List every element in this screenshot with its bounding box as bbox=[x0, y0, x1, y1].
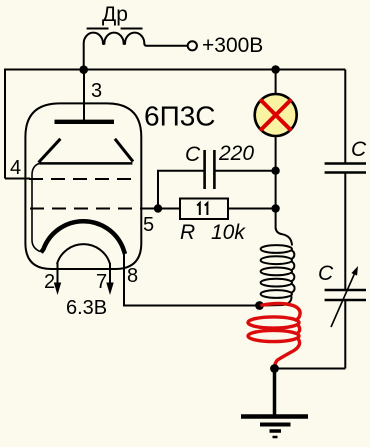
wire coil top lead bbox=[275, 209, 277, 229]
grid g2 dashed bbox=[29, 178, 135, 180]
node junction dot coil tap bbox=[255, 301, 264, 310]
wire C1 right lead bbox=[214, 170, 275, 172]
ground bbox=[241, 417, 308, 438]
svg-text:+300В: +300В bbox=[202, 34, 263, 57]
wire top bus from left corner to right corner bbox=[5, 70, 345, 179]
svg-text:6.3В: 6.3В bbox=[66, 297, 107, 319]
beam plate to cathode internal connection bbox=[32, 163, 40, 251]
svg-text:220: 220 bbox=[218, 142, 254, 165]
svg-text:С: С bbox=[185, 143, 201, 166]
wire pin 8 cathode lead bbox=[124, 250, 260, 306]
variable capacitor arrow bbox=[331, 266, 358, 327]
heater filament bbox=[57, 244, 110, 264]
svg-text:R: R bbox=[180, 221, 195, 244]
svg-text:4: 4 bbox=[10, 157, 21, 179]
wire R right lead bbox=[228, 208, 276, 210]
grid g1 dashed bbox=[30, 208, 141, 210]
node junction dot lamp/C1 bbox=[271, 167, 279, 175]
svg-text:5: 5 bbox=[143, 214, 154, 236]
svg-text:С: С bbox=[351, 138, 367, 161]
node junction dot pin5 bbox=[154, 204, 162, 212]
wire between caps bbox=[344, 173, 346, 290]
svg-text:2: 2 bbox=[44, 271, 55, 293]
svg-text:Др: Др bbox=[102, 3, 128, 26]
svg-text:7: 7 bbox=[96, 271, 107, 293]
wire pin 5 grid lead bbox=[141, 208, 180, 210]
wire ground lead bbox=[273, 369, 277, 417]
capacitor C1 220 plates bbox=[205, 150, 215, 189]
svg-text:10k: 10k bbox=[211, 221, 246, 244]
node junction dot at choke/bus bbox=[79, 65, 88, 74]
capacitor C2 fixed right bbox=[325, 164, 366, 173]
wire node to node bbox=[275, 171, 277, 209]
inductor L1 black coil bbox=[261, 228, 295, 306]
beam-forming plates bbox=[39, 139, 134, 164]
svg-text:8: 8 bbox=[127, 265, 138, 287]
wire pin 4 screen grid lead bbox=[5, 178, 30, 180]
tube U1 6П3С envelope bbox=[25, 103, 141, 269]
svg-text:С: С bbox=[318, 262, 334, 285]
svg-text:3: 3 bbox=[91, 80, 102, 102]
anode plate bbox=[55, 120, 115, 124]
wire right branch lower bbox=[344, 300, 346, 369]
lamp HL bbox=[255, 94, 297, 136]
wire lamp top lead bbox=[275, 70, 277, 94]
wire lamp bottom lead bbox=[275, 137, 277, 171]
svg-text:6П3С: 6П3С bbox=[144, 101, 216, 132]
inductor L2 red coil bbox=[248, 304, 300, 369]
node junction dot coil bottom bbox=[270, 364, 279, 373]
wire coil bottom to right branch bbox=[275, 368, 346, 370]
wire C1 left lead to node 5 bbox=[158, 171, 205, 209]
wire pin 3 anode lead bbox=[83, 69, 85, 122]
terminal +300V open circle bbox=[188, 41, 197, 50]
choke Др bbox=[84, 29, 188, 70]
variable capacitor C3 bbox=[325, 290, 366, 300]
heater lead pin 2 with arrow bbox=[54, 263, 61, 295]
node junction dot at bus/lamp bbox=[271, 65, 280, 74]
wire right branch upper bbox=[344, 70, 346, 164]
heater lead pin 7 with arrow bbox=[106, 263, 113, 295]
cathode bbox=[41, 221, 125, 254]
node junction dot R/coil bbox=[271, 204, 279, 212]
resistor R 10k body bbox=[180, 199, 228, 220]
resistor power marks bbox=[197, 203, 207, 215]
